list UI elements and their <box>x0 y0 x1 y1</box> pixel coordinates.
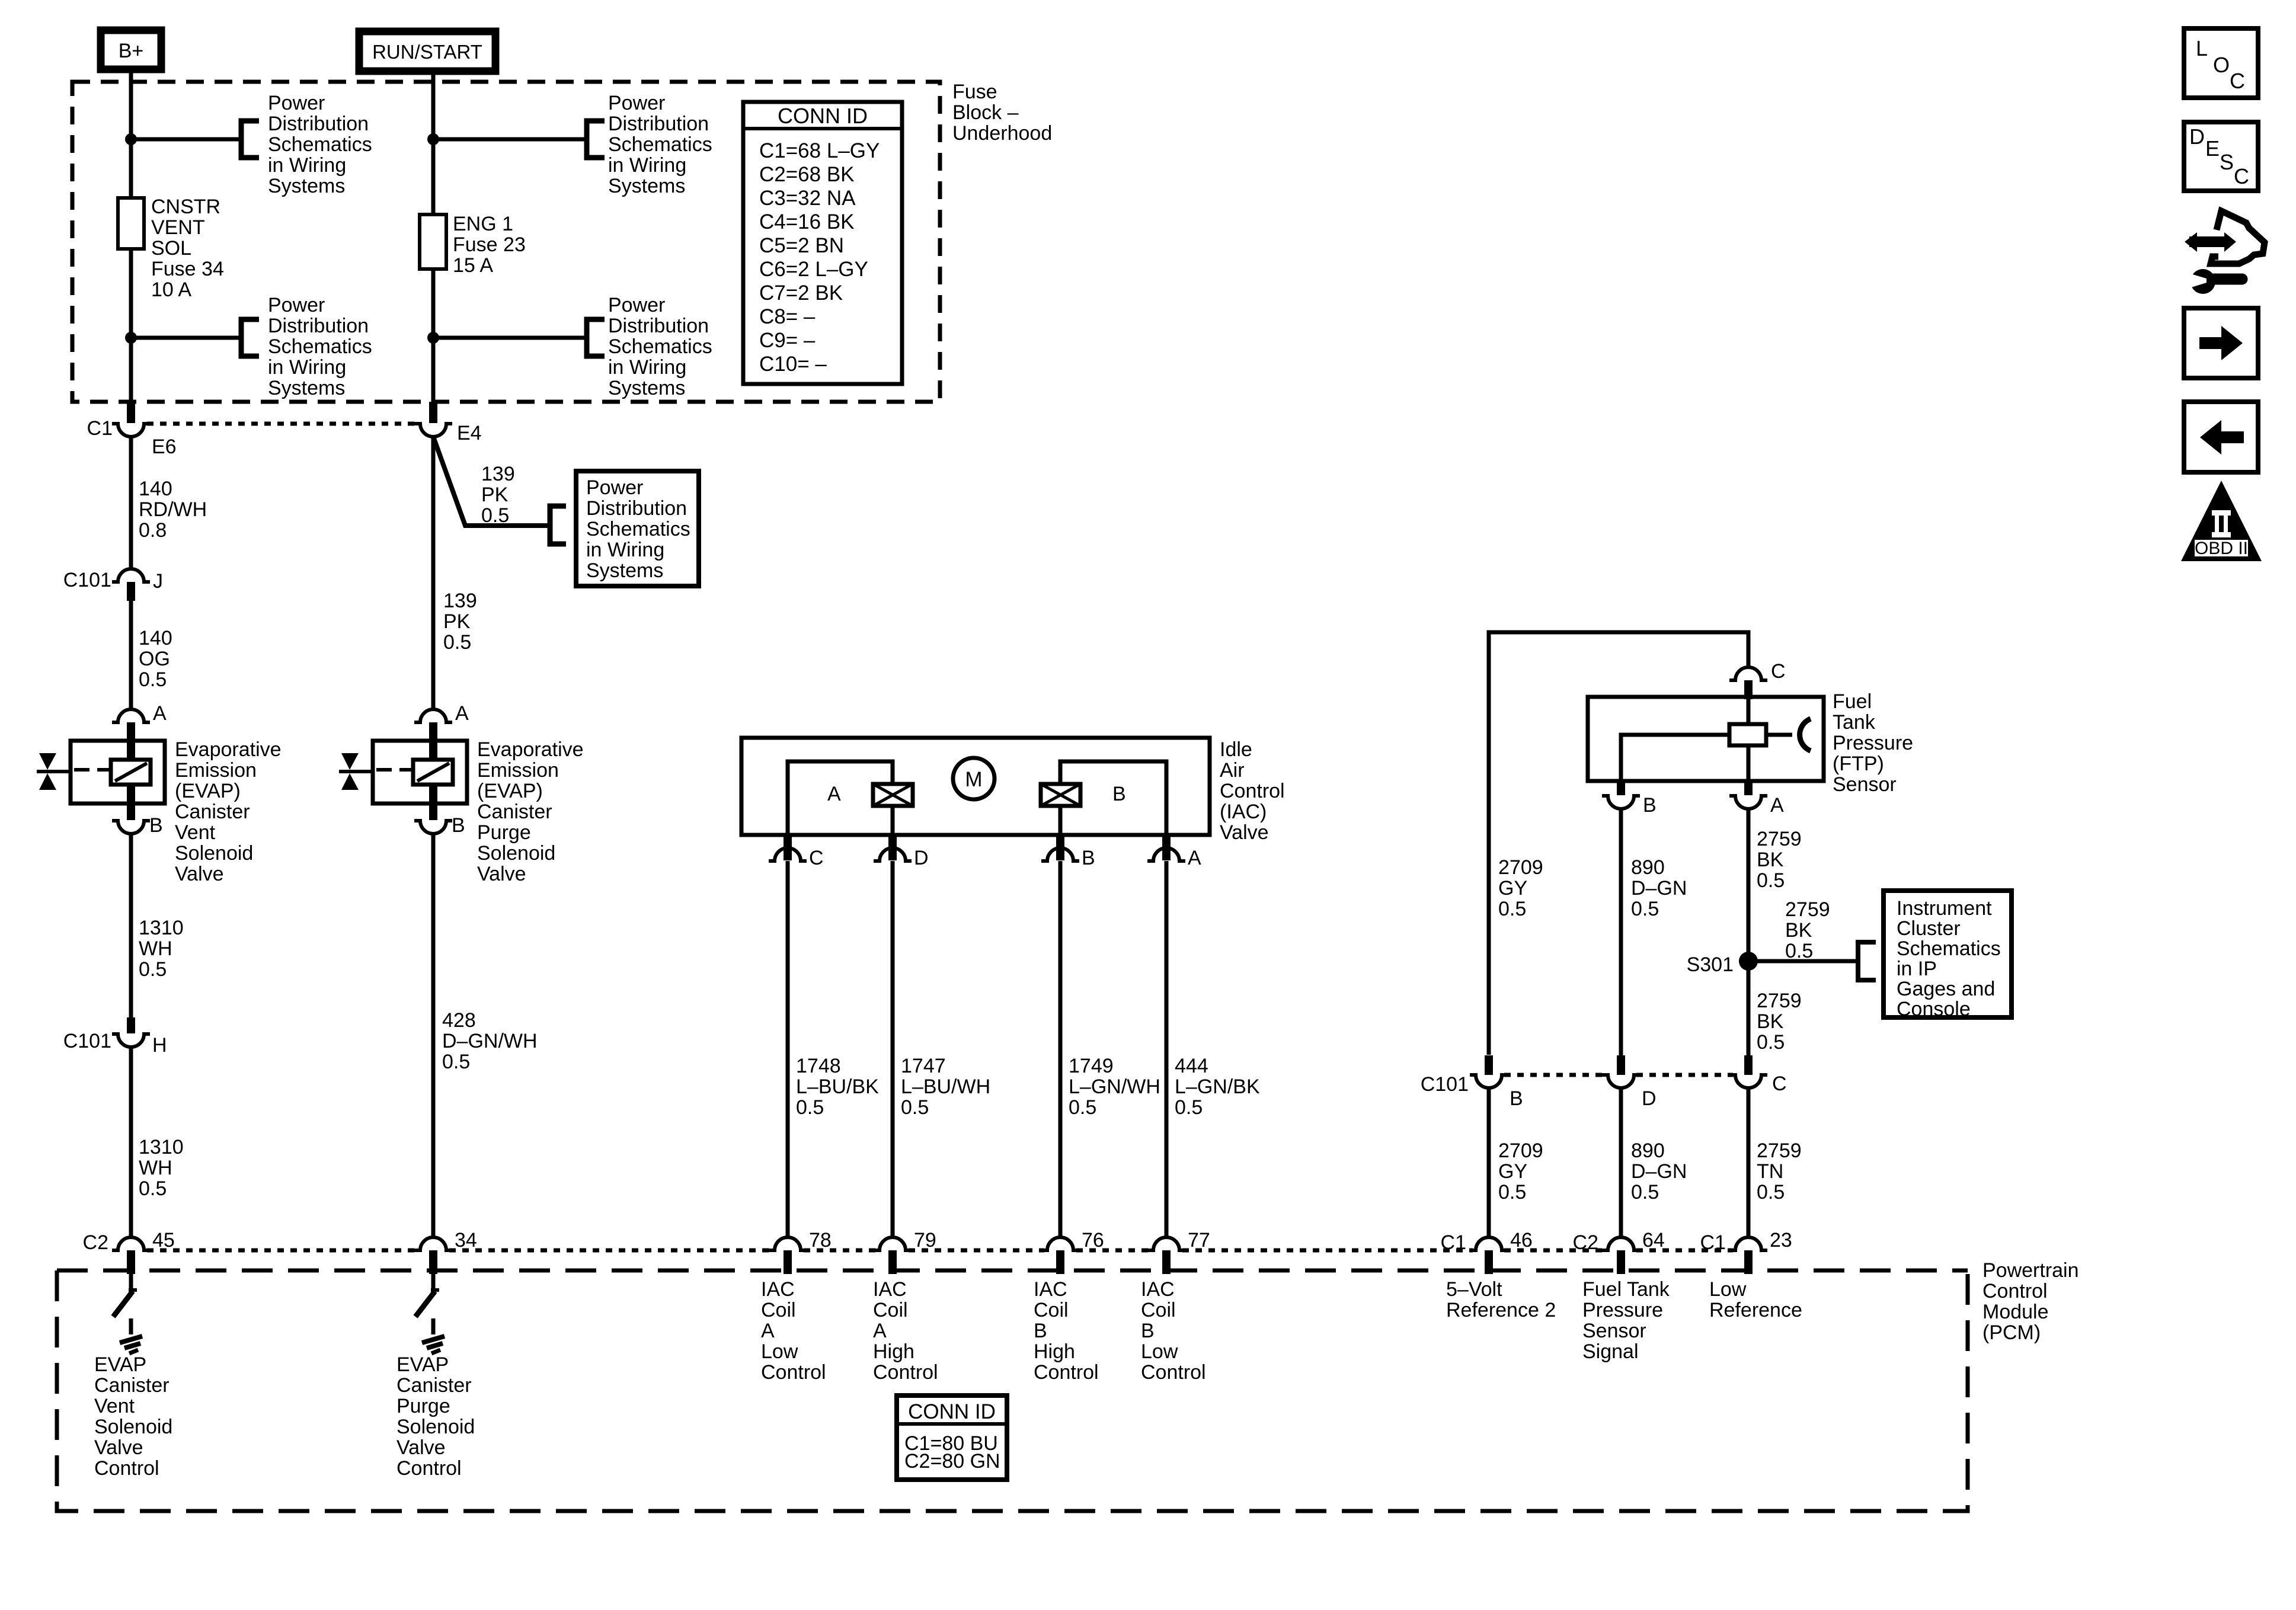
svg-text:M: M <box>965 768 982 791</box>
svg-text:0.5: 0.5 <box>139 668 167 691</box>
svg-text:Systems: Systems <box>586 559 663 582</box>
svg-text:C4=16 BK: C4=16 BK <box>759 210 855 233</box>
solenoid coil <box>127 741 135 762</box>
PCM pin 34 <box>414 1237 452 1250</box>
wire 2759 BK to instrument cluster <box>1748 959 1858 964</box>
connector B of FTP sensor <box>1617 781 1625 795</box>
svg-text:1310: 1310 <box>139 917 184 939</box>
svg-text:Control: Control <box>1220 780 1285 802</box>
svg-text:Purge: Purge <box>477 821 531 844</box>
svg-text:0.5: 0.5 <box>1785 940 1813 962</box>
svg-text:in Wiring: in Wiring <box>608 154 686 177</box>
svg-text:CNSTR: CNSTR <box>151 196 220 218</box>
svg-text:64: 64 <box>1642 1229 1665 1251</box>
svg-text:CONN ID: CONN ID <box>908 1400 996 1423</box>
svg-text:Module: Module <box>1982 1301 2049 1323</box>
svg-text:1310: 1310 <box>139 1136 184 1158</box>
connector A <box>414 709 452 722</box>
wire 1748 L–BU/BK <box>786 861 790 1237</box>
svg-text:A: A <box>761 1320 775 1342</box>
svg-text:Signal: Signal <box>1582 1340 1639 1363</box>
svg-text:Coil: Coil <box>1141 1299 1176 1321</box>
valve bowtie symbol <box>341 753 359 770</box>
svg-text:in Wiring: in Wiring <box>268 154 346 177</box>
connector E4 <box>429 402 437 423</box>
svg-text:0.5: 0.5 <box>1757 1031 1785 1054</box>
motor M <box>953 758 994 799</box>
svg-text:C2: C2 <box>83 1231 108 1254</box>
PCM pin 23 <box>1729 1237 1767 1250</box>
svg-text:2709: 2709 <box>1498 1140 1543 1162</box>
svg-text:Fuse 34: Fuse 34 <box>151 258 224 280</box>
svg-text:L–BU/WH: L–BU/WH <box>901 1076 990 1098</box>
svg-text:Solenoid: Solenoid <box>396 1416 475 1438</box>
svg-text:Solenoid: Solenoid <box>175 842 253 865</box>
svg-text:Coil: Coil <box>761 1299 796 1321</box>
svg-text:E6: E6 <box>152 436 177 458</box>
svg-text:C3=32 NA: C3=32 NA <box>759 187 856 210</box>
svg-text:OBD II: OBD II <box>2195 539 2248 558</box>
fuel tank pressure sensor box <box>1588 697 1824 781</box>
fuse block underhood dashed box <box>72 82 940 402</box>
svg-text:Valve: Valve <box>175 863 224 885</box>
svg-text:2759: 2759 <box>1757 828 1802 850</box>
svg-text:0.5: 0.5 <box>1631 1181 1659 1204</box>
wire 2709 GY lower <box>1487 1089 1491 1237</box>
mechanical link dashes <box>74 768 111 772</box>
pressure port arc <box>1800 719 1811 751</box>
svg-text:D: D <box>2189 124 2205 149</box>
svg-text:23: 23 <box>1770 1229 1792 1251</box>
svg-text:Distribution: Distribution <box>268 113 369 135</box>
EVAP purge solenoid driver switch <box>431 1274 436 1290</box>
svg-text:Pressure: Pressure <box>1582 1299 1663 1321</box>
svg-text:Coil: Coil <box>873 1299 908 1321</box>
svg-text:D: D <box>1642 1087 1657 1110</box>
connector C101 J <box>112 569 150 582</box>
svg-text:Emission: Emission <box>175 759 257 782</box>
svg-text:45: 45 <box>152 1229 175 1251</box>
svg-text:1748: 1748 <box>796 1055 841 1077</box>
mechanical link dashes <box>376 768 413 772</box>
svg-text:Systems: Systems <box>268 377 345 399</box>
PCM pin 46 <box>1470 1237 1508 1250</box>
svg-text:D–GN: D–GN <box>1631 877 1687 900</box>
svg-text:IAC: IAC <box>873 1278 907 1301</box>
PCM dashed box <box>57 1269 1968 1273</box>
power node B+ <box>101 30 161 69</box>
svg-text:Instrument: Instrument <box>1897 897 1992 920</box>
connector C101 row right <box>1485 1055 1493 1075</box>
svg-text:A: A <box>455 702 469 725</box>
svg-text:C2=68 BK: C2=68 BK <box>759 163 855 186</box>
svg-text:PK: PK <box>481 484 509 506</box>
svg-text:C9= –: C9= – <box>759 329 816 352</box>
svg-text:Canister: Canister <box>396 1374 472 1397</box>
junction <box>427 332 439 344</box>
svg-text:Powertrain: Powertrain <box>1982 1259 2079 1282</box>
svg-text:79: 79 <box>914 1229 936 1251</box>
svg-text:E4: E4 <box>457 422 482 444</box>
wire 1310 WH lower <box>129 1047 133 1237</box>
PCM pin 79 <box>874 1237 912 1250</box>
sensor element <box>1729 724 1766 745</box>
PCM pin 45 <box>112 1237 150 1250</box>
svg-text:B: B <box>452 814 465 837</box>
svg-text:Canister: Canister <box>175 801 250 823</box>
IAC coil B <box>1041 784 1080 806</box>
svg-text:IAC: IAC <box>1034 1278 1067 1301</box>
svg-text:Low: Low <box>1141 1340 1178 1363</box>
svg-text:C: C <box>2234 164 2249 188</box>
svg-text:C101: C101 <box>63 569 111 591</box>
svg-text:RD/WH: RD/WH <box>139 498 207 521</box>
svg-text:890: 890 <box>1631 856 1665 879</box>
wire 139 PK <box>431 437 436 709</box>
icon LOC <box>2184 28 2258 98</box>
wire 5-volt reference feed <box>1489 632 1748 1055</box>
CONN ID table PCM <box>897 1395 1007 1480</box>
IAC valve box <box>741 738 1210 835</box>
svg-text:L–BU/BK: L–BU/BK <box>796 1076 879 1098</box>
svg-text:Schematics: Schematics <box>268 133 372 156</box>
sensor internal wiring <box>1747 697 1751 781</box>
svg-text:0.5: 0.5 <box>139 1177 167 1200</box>
IAC pin B <box>1056 835 1064 860</box>
solenoid valve box <box>71 741 165 804</box>
reference box Power Distribution Schematics in Wiring Systems <box>576 471 699 586</box>
svg-text:C2=80 GN: C2=80 GN <box>904 1450 1000 1473</box>
svg-text:Console: Console <box>1897 998 1971 1020</box>
IAC coil A <box>873 784 913 806</box>
IAC pin A <box>1162 835 1171 860</box>
svg-text:Evaporative: Evaporative <box>175 738 282 761</box>
svg-text:C6=2 L–GY: C6=2 L–GY <box>759 258 868 281</box>
in-line connector dotted line <box>147 422 417 426</box>
svg-text:Distribution: Distribution <box>268 315 369 337</box>
svg-text:Power: Power <box>586 476 643 499</box>
svg-text:Vent: Vent <box>175 821 216 844</box>
svg-text:428: 428 <box>442 1009 476 1032</box>
svg-text:Low: Low <box>761 1340 798 1363</box>
svg-text:Solenoid: Solenoid <box>477 842 555 865</box>
junction <box>427 133 439 145</box>
svg-text:B: B <box>1141 1320 1155 1342</box>
svg-text:in Wiring: in Wiring <box>268 356 346 379</box>
fuse CNSTR VENT SOL Fuse 34 10A <box>118 198 144 249</box>
svg-text:34: 34 <box>455 1229 477 1251</box>
PCM pin 76 <box>1041 1237 1079 1250</box>
connector B <box>127 804 135 820</box>
svg-text:Valve: Valve <box>1220 821 1269 844</box>
svg-text:C: C <box>809 847 824 869</box>
svg-text:Gages and: Gages and <box>1897 978 1995 1000</box>
svg-text:C1=68 L–GY: C1=68 L–GY <box>759 139 880 162</box>
reference bracket <box>241 319 259 356</box>
svg-text:B+: B+ <box>119 40 144 62</box>
svg-text:140: 140 <box>139 627 172 649</box>
solenoid valve box <box>373 741 467 804</box>
icon DESC <box>2184 122 2258 191</box>
svg-text:15 A: 15 A <box>453 254 493 277</box>
svg-text:Evaporative: Evaporative <box>477 738 584 761</box>
connector A of FTP sensor <box>1744 781 1753 795</box>
svg-text:in IP: in IP <box>1897 958 1937 980</box>
svg-text:Sensor: Sensor <box>1582 1320 1646 1342</box>
svg-text:Purge: Purge <box>396 1395 450 1417</box>
wire 140 OG <box>129 601 133 709</box>
svg-text:E: E <box>2205 136 2220 161</box>
svg-text:CONN ID: CONN ID <box>778 104 868 128</box>
svg-text:Control: Control <box>1034 1361 1099 1384</box>
svg-text:(PCM): (PCM) <box>1982 1321 2041 1344</box>
svg-text:Systems: Systems <box>268 175 345 197</box>
wire E4 to reference <box>433 437 550 526</box>
svg-text:WH: WH <box>139 937 172 960</box>
junction <box>125 133 137 145</box>
svg-text:Control: Control <box>396 1457 462 1480</box>
svg-text:Power: Power <box>608 92 665 114</box>
svg-text:C: C <box>1772 1073 1787 1095</box>
svg-text:Schematics: Schematics <box>608 133 712 156</box>
svg-text:C2: C2 <box>1573 1231 1598 1254</box>
connector C of FTP sensor <box>1729 667 1767 680</box>
CONN ID table fuse block <box>743 102 902 384</box>
svg-text:Air: Air <box>1220 759 1245 782</box>
svg-text:0.5: 0.5 <box>442 1051 470 1073</box>
svg-text:B: B <box>1034 1320 1047 1342</box>
svg-text:C1: C1 <box>1700 1231 1726 1254</box>
svg-text:139: 139 <box>481 463 515 485</box>
svg-text:2759: 2759 <box>1785 898 1830 921</box>
IAC coil B wiring <box>1060 761 1166 835</box>
svg-text:RUN/START: RUN/START <box>372 41 482 63</box>
svg-text:0.5: 0.5 <box>1757 869 1785 892</box>
reference bracket <box>1858 942 1876 980</box>
icon arrow left <box>2184 402 2258 472</box>
svg-text:0.5: 0.5 <box>1175 1096 1203 1119</box>
svg-text:Emission: Emission <box>477 759 559 782</box>
svg-text:1747: 1747 <box>901 1055 946 1077</box>
reference box Instrument Cluster Schematics in IP Gages and Console <box>1884 891 2012 1017</box>
svg-text:D: D <box>914 847 929 869</box>
svg-text:S: S <box>2220 150 2234 174</box>
svg-text:76: 76 <box>1082 1229 1104 1251</box>
svg-text:0.8: 0.8 <box>139 519 167 542</box>
svg-text:Power: Power <box>268 92 325 114</box>
svg-text:Sensor: Sensor <box>1833 773 1897 796</box>
wire 444 L–GN/BK <box>1165 861 1169 1237</box>
svg-text:WH: WH <box>139 1157 172 1179</box>
wire branch <box>433 336 587 340</box>
svg-text:1749: 1749 <box>1069 1055 1114 1077</box>
svg-text:Fuse 23: Fuse 23 <box>453 233 526 256</box>
svg-text:BK: BK <box>1757 849 1784 871</box>
svg-text:(EVAP): (EVAP) <box>477 780 543 802</box>
wire 2759 BK upper <box>1747 809 1751 961</box>
svg-text:IAC: IAC <box>1141 1278 1175 1301</box>
connector C101 H <box>127 1017 135 1033</box>
wire 428 D-GN/WH <box>431 834 436 1237</box>
svg-text:0.5: 0.5 <box>1498 898 1526 920</box>
svg-text:C7=2 BK: C7=2 BK <box>759 281 843 305</box>
svg-text:Schematics: Schematics <box>1897 937 2001 960</box>
svg-text:BK: BK <box>1757 1010 1784 1033</box>
svg-text:890: 890 <box>1631 1140 1665 1162</box>
svg-text:Valve: Valve <box>396 1436 446 1459</box>
svg-text:C101: C101 <box>1421 1073 1469 1096</box>
svg-text:0.5: 0.5 <box>796 1096 824 1119</box>
svg-text:Valve: Valve <box>94 1436 143 1459</box>
icon arrow right <box>2184 308 2258 378</box>
svg-text:C: C <box>1771 660 1786 683</box>
svg-text:Block –: Block – <box>952 101 1019 124</box>
svg-text:Power: Power <box>268 294 325 316</box>
svg-text:2709: 2709 <box>1498 856 1543 879</box>
wire RUN/START feed <box>431 71 436 403</box>
reference bracket <box>241 121 259 158</box>
svg-text:IAC: IAC <box>761 1278 795 1301</box>
connector C1 E6 <box>127 402 135 423</box>
svg-text:C10= –: C10= – <box>759 353 827 376</box>
svg-text:Systems: Systems <box>608 175 685 197</box>
solenoid coil <box>429 741 437 762</box>
svg-text:Coil: Coil <box>1034 1299 1069 1321</box>
svg-text:A: A <box>827 783 841 805</box>
svg-text:C5=2 BN: C5=2 BN <box>759 234 844 257</box>
svg-text:OG: OG <box>139 648 170 670</box>
svg-text:S301: S301 <box>1687 953 1734 976</box>
svg-text:Cluster: Cluster <box>1897 917 1961 940</box>
wire 1310 WH upper <box>129 834 133 1017</box>
PCM pin 78 <box>769 1237 807 1250</box>
svg-text:Low: Low <box>1709 1278 1747 1301</box>
svg-text:0.5: 0.5 <box>901 1096 929 1119</box>
svg-text:Distribution: Distribution <box>608 315 709 337</box>
svg-text:0.5: 0.5 <box>1069 1096 1096 1119</box>
svg-text:PK: PK <box>443 610 471 633</box>
svg-text:C: C <box>2230 69 2245 93</box>
svg-text:Canister: Canister <box>94 1374 170 1397</box>
svg-text:2759: 2759 <box>1757 990 1802 1012</box>
svg-text:VENT: VENT <box>151 216 205 239</box>
svg-text:Control: Control <box>1982 1280 2048 1302</box>
wire B+ feed <box>129 70 133 403</box>
power node RUN/START <box>359 31 495 71</box>
svg-text:Fuel Tank: Fuel Tank <box>1582 1278 1670 1301</box>
PCM connector row dotted line <box>147 1249 417 1253</box>
wire 2759 TN <box>1747 1089 1751 1237</box>
svg-text:Canister: Canister <box>477 801 552 823</box>
wire branch <box>131 336 241 340</box>
reference bracket <box>550 506 566 544</box>
svg-text:Underhood: Underhood <box>952 122 1052 145</box>
svg-text:Control: Control <box>1141 1361 1206 1384</box>
svg-text:0.5: 0.5 <box>139 958 167 981</box>
reference bracket <box>587 121 605 158</box>
svg-text:C8= –: C8= – <box>759 305 816 328</box>
svg-text:Solenoid: Solenoid <box>94 1416 172 1438</box>
wire 1747 L–BU/WH <box>891 861 895 1237</box>
svg-text:EVAP: EVAP <box>396 1353 449 1376</box>
svg-text:C101: C101 <box>63 1030 111 1052</box>
svg-text:0.5: 0.5 <box>1757 1181 1785 1204</box>
svg-text:O: O <box>2213 53 2230 77</box>
svg-text:Fuel: Fuel <box>1833 690 1872 713</box>
svg-text:B: B <box>1112 783 1126 805</box>
reference bracket <box>587 319 605 356</box>
svg-text:J: J <box>153 570 163 593</box>
svg-text:0.5: 0.5 <box>443 631 471 654</box>
svg-text:Control: Control <box>94 1457 159 1480</box>
svg-text:A: A <box>1188 847 1201 869</box>
wire 890 D-GN lower <box>1619 1089 1623 1237</box>
svg-text:2759: 2759 <box>1757 1140 1802 1162</box>
junction <box>125 332 137 344</box>
wire 890 D-GN upper <box>1619 809 1623 1055</box>
svg-text:444: 444 <box>1175 1055 1208 1077</box>
EVAP vent solenoid driver switch <box>129 1274 133 1290</box>
svg-text:EVAP: EVAP <box>94 1353 146 1376</box>
svg-text:High: High <box>873 1340 914 1363</box>
svg-text:D–GN: D–GN <box>1631 1160 1687 1183</box>
splice S301 <box>1739 952 1758 971</box>
svg-text:Reference: Reference <box>1709 1299 1802 1321</box>
svg-text:77: 77 <box>1188 1229 1210 1251</box>
svg-text:139: 139 <box>443 590 477 612</box>
svg-text:Systems: Systems <box>608 377 685 399</box>
svg-text:Control: Control <box>873 1361 938 1384</box>
svg-text:B: B <box>1643 794 1657 817</box>
svg-text:Distribution: Distribution <box>586 497 687 520</box>
in-line connector dotted line <box>1504 1073 1606 1077</box>
IAC pin C <box>784 835 792 860</box>
svg-text:D–GN/WH: D–GN/WH <box>442 1030 538 1052</box>
svg-text:5–Volt: 5–Volt <box>1446 1278 1502 1301</box>
svg-text:GY: GY <box>1498 877 1527 900</box>
svg-text:78: 78 <box>809 1229 832 1251</box>
svg-text:Schematics: Schematics <box>608 335 712 358</box>
svg-text:BK: BK <box>1785 919 1812 942</box>
IAC coil A wiring <box>788 761 893 835</box>
wire 1749 L–GN/WH <box>1059 861 1063 1237</box>
svg-text:L–GN/BK: L–GN/BK <box>1175 1076 1260 1098</box>
svg-text:Vent: Vent <box>94 1395 135 1417</box>
svg-text:SOL: SOL <box>151 237 191 260</box>
svg-text:Idle: Idle <box>1220 738 1252 761</box>
wire 2759 BK lower <box>1747 961 1751 1055</box>
icon vehicle data arrow with wrench <box>2211 211 2265 264</box>
svg-text:A: A <box>1770 794 1784 817</box>
fuse ENG 1 Fuse 23 15A <box>420 215 446 269</box>
svg-text:High: High <box>1034 1340 1075 1363</box>
svg-text:Pressure: Pressure <box>1833 732 1913 754</box>
svg-text:Fuse: Fuse <box>952 81 997 103</box>
wire branch <box>131 137 241 142</box>
svg-text:10 A: 10 A <box>151 279 191 301</box>
connector B <box>429 804 437 820</box>
svg-text:in Wiring: in Wiring <box>608 356 686 379</box>
IAC pin D <box>888 835 897 860</box>
svg-text:Valve: Valve <box>477 863 526 885</box>
svg-text:(FTP): (FTP) <box>1833 753 1884 775</box>
svg-text:TN: TN <box>1757 1160 1783 1183</box>
svg-text:0.5: 0.5 <box>1498 1181 1526 1204</box>
svg-text:C1: C1 <box>87 417 113 440</box>
svg-text:C1: C1 <box>1441 1231 1466 1254</box>
svg-text:ENG 1: ENG 1 <box>453 213 513 235</box>
svg-text:in Wiring: in Wiring <box>586 539 664 561</box>
